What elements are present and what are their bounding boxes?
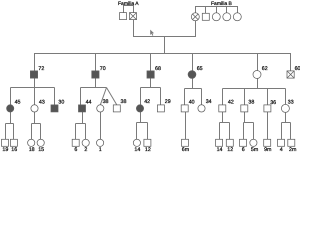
individual I-4 male familia B (202, 13, 209, 20)
individual IV-16 male 4 (278, 139, 285, 146)
svg-text:40: 40 (189, 100, 195, 106)
svg-text:14: 14 (134, 147, 140, 153)
svg-text:14: 14 (217, 147, 223, 153)
individual IV-15 male 9m (264, 139, 271, 146)
svg-text:19: 19 (2, 147, 8, 153)
wire drop IV 1 from twin 38 (100, 112, 102, 139)
individual III-1 affected female 45 (7, 105, 14, 112)
individual III-7 affected female 42 (136, 105, 143, 112)
wire drop IV 6 (75, 124, 77, 140)
wire drop IV 12 (229, 123, 231, 140)
individual IV-10 male 6m (182, 139, 189, 146)
wire sibship under II-5 (62) (223, 79, 258, 89)
individual IV-11 male 14 (216, 139, 223, 146)
wire drop IV 6m from 40 (185, 112, 187, 139)
individual I-7 female familia B (233, 13, 241, 21)
svg-text:1: 1 (99, 147, 102, 153)
wire drop IV 4 (281, 123, 283, 140)
wire drop II-2 (95, 54, 97, 71)
wire drop IV 2 (85, 124, 87, 140)
individual III-5 twin female 38 (97, 105, 104, 112)
wire drop IV 15 (40, 124, 42, 140)
svg-text:6: 6 (74, 147, 77, 153)
wire sibship under 43 (32, 112, 35, 124)
svg-text:38: 38 (103, 99, 109, 105)
wire drop II-3 (150, 54, 152, 71)
svg-text:38: 38 (121, 99, 127, 105)
wire drop II-4 (192, 54, 194, 71)
wire drop IV 14 (219, 123, 221, 140)
svg-text:6: 6 (242, 147, 245, 153)
svg-text:45: 45 (15, 100, 21, 106)
individual II-3 affected male 68 (147, 71, 154, 78)
svg-text:4: 4 (280, 147, 283, 153)
svg-text:18: 18 (29, 147, 35, 153)
svg-text:Familia B: Familia B (211, 1, 233, 7)
wire sibship under II-1 (72) (11, 78, 35, 87)
individual IV-7 female 1 (97, 139, 104, 146)
individual III-4 affected male 44 (79, 105, 86, 112)
wire drop IV 14 circle (136, 123, 138, 140)
svg-text:29: 29 (165, 99, 171, 105)
individual III-10 female 34 (198, 105, 205, 112)
wire drop III 36 (267, 89, 269, 105)
wire sibship under 38 square right (244, 112, 245, 123)
individual I-5 female familia B (212, 13, 220, 21)
wire drop III 29 (160, 88, 162, 105)
wire familia B drop B3 (216, 7, 218, 14)
svg-text:62: 62 (262, 66, 268, 72)
individual IV-2 male 16 (10, 139, 17, 146)
svg-text:44: 44 (86, 100, 92, 106)
wire marriage line I-2 x I-3 (134, 20, 196, 37)
svg-text:5m: 5m (251, 147, 259, 153)
individual IV-14 female 5m (250, 139, 257, 146)
wire drop III 34 (201, 89, 203, 105)
wire drop III 45 (10, 88, 12, 105)
svg-text:15: 15 (38, 147, 44, 153)
individual IV-6 female 2 (82, 139, 89, 146)
wire familia B sibship line (196, 7, 238, 14)
wire sibship under II-4 (65) (185, 78, 193, 88)
svg-text:2m: 2m (289, 147, 297, 153)
wire familia B drop B2 (205, 7, 207, 14)
wire drop III 33 (285, 89, 287, 105)
individual IV-1 male 19 (2, 139, 9, 146)
wire drop II-5 (257, 54, 259, 71)
svg-text:36: 36 (270, 100, 276, 106)
individual II-1 affected male 72 (30, 71, 37, 78)
wire sibship under 45 (6, 112, 11, 124)
wire drop III 43 (34, 88, 36, 105)
individual IV-13 male 6 (240, 139, 247, 146)
wire sibship under 42 square (220, 112, 223, 123)
svg-text:68: 68 (155, 66, 161, 72)
individual IV-4 female 15 (37, 139, 44, 146)
wire drop IV 16 (13, 124, 15, 140)
wire sibship under 42 circle (137, 112, 141, 123)
wire drop III 30 (54, 88, 56, 105)
svg-text:12: 12 (227, 147, 233, 153)
individual III-11 male 42 (219, 105, 226, 112)
individual III-12 male 38 (241, 105, 248, 112)
wire sibship under II-3 (68) (141, 78, 151, 87)
svg-text:30: 30 (58, 100, 64, 106)
individual IV-8 female 14 (133, 139, 140, 146)
wire drop IV 19 (5, 124, 7, 140)
individual IV-3 female 18 (28, 139, 35, 146)
individual I-6 female familia B (223, 13, 231, 21)
individual I-3 deceased female familia B (191, 13, 199, 21)
individual IV-5 male 6 (72, 139, 79, 146)
wire drop IV 9m from 36 (267, 112, 269, 139)
wire drop III 42 circle (140, 88, 142, 105)
svg-text:16: 16 (11, 147, 17, 153)
individual IV-12 male 12 (226, 139, 233, 146)
svg-text:6m: 6m (182, 147, 190, 153)
wire drop IV 2m (290, 123, 292, 140)
wire familia B drop B4 (226, 7, 228, 14)
individual IV-9 male 12 (144, 139, 151, 146)
wire drop IV 12 square (147, 123, 149, 140)
individual III-13 male 36 (264, 105, 271, 112)
svg-text:60: 60 (295, 66, 300, 72)
individual III-2 unaffected female 43 (31, 105, 38, 112)
wire sibship under 44 (76, 112, 83, 124)
svg-text:42: 42 (144, 99, 150, 105)
individual I-1 unaffected male familia A (120, 13, 127, 20)
individual II-5 unaffected female 62 (253, 71, 261, 79)
individual II-4 affected female 65 (188, 71, 196, 79)
svg-text:Familia A: Familia A (118, 1, 139, 7)
individual III-9 male 40 (181, 105, 188, 112)
wire sibship under 33 (282, 113, 286, 123)
individual II-2 affected male 70 (92, 71, 99, 78)
wire couple child drop (164, 37, 166, 54)
wire twin line to 38 square (107, 88, 117, 105)
individual III-14 female 33 (281, 104, 289, 112)
svg-text:70: 70 (100, 66, 106, 72)
svg-text:38: 38 (248, 100, 254, 106)
wire familia A bracket (124, 6, 134, 13)
wire twin line to 38 circle (100, 88, 106, 105)
svg-text:34: 34 (206, 99, 212, 105)
individual II-6 deceased male 60 (287, 71, 294, 78)
mouse cursor artifact (150, 30, 154, 36)
wire drop IV 5m (253, 123, 255, 140)
svg-text:2: 2 (84, 147, 87, 153)
individual III-8 male 29 (157, 105, 164, 112)
wire drop IV 6 right (243, 123, 245, 140)
individual III-6 twin male 38 (113, 105, 120, 112)
wire drop III 44 (80, 88, 82, 105)
svg-text:43: 43 (39, 100, 45, 106)
wire generation II sibship line (35, 54, 291, 71)
wire drop III 42 square (222, 89, 224, 105)
wire drop IV 18 (31, 124, 33, 140)
individual III-3 affected male 30 (51, 105, 58, 112)
svg-text:72: 72 (38, 66, 44, 72)
wire drop III 38 square (244, 89, 246, 105)
wire drop III 40 (184, 89, 186, 105)
individual IV-17 male 2m (288, 139, 295, 146)
wire sibship under II-2 (70) (81, 78, 96, 87)
svg-text:65: 65 (197, 66, 203, 72)
svg-text:33: 33 (288, 99, 294, 105)
svg-text:9m: 9m (264, 147, 272, 153)
svg-text:12: 12 (145, 147, 151, 153)
individual I-2 deceased male familia A (130, 13, 137, 20)
svg-text:42: 42 (228, 100, 234, 106)
